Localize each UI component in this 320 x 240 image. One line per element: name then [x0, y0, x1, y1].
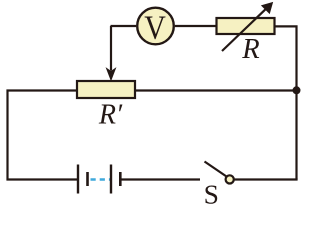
wire battery to switch [121, 178, 200, 180]
voltmeter V [137, 8, 174, 46]
svg-text:R′: R′ [98, 99, 123, 130]
switch S blade [205, 162, 227, 177]
battery cell 2 long plate [110, 165, 112, 194]
wire R to top-right corner and right rail down to bottom-right corner [276, 26, 297, 179]
battery dashed link (blue) [91, 178, 111, 180]
label S [204, 178, 219, 209]
label R' [98, 99, 123, 130]
label R [241, 34, 259, 65]
svg-text:R: R [241, 34, 259, 65]
wire R' left lead, left rail, bottom to battery [8, 91, 78, 180]
svg-text:S: S [204, 178, 219, 206]
svg-text:V: V [144, 8, 166, 46]
battery cell 1 short plate [86, 172, 89, 186]
variable resistor R (box with diagonal arrow) [217, 3, 275, 51]
battery cell 2 short plate [119, 172, 122, 186]
rheostat R' (box) [77, 81, 135, 98]
wiper arrow (vertical wire with arrowhead onto R') [107, 26, 116, 80]
wire switch to bottom-right corner [235, 178, 298, 180]
battery cell 1 long plate [77, 165, 79, 194]
wire R' right lead to right rail [136, 89, 297, 91]
junction node (dot on right rail) [293, 86, 301, 94]
wire voltmeter to R [175, 25, 216, 27]
wire top-left horizontal (wiper to voltmeter) [111, 25, 137, 27]
switch S contact circle [226, 175, 234, 183]
